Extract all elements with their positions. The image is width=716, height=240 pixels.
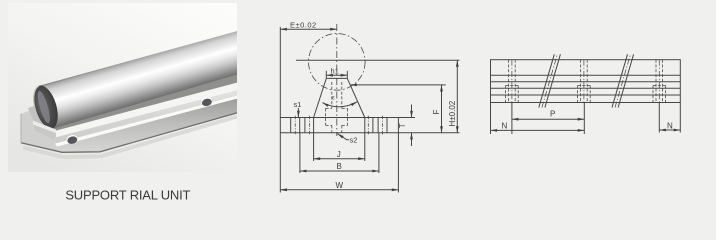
P arrows <box>512 118 519 121</box>
left edge extension <box>490 103 492 135</box>
F leader line <box>351 84 446 86</box>
H arrows <box>456 60 459 67</box>
svg-text:W: W <box>336 181 344 190</box>
saddle bright sliver <box>33 121 56 134</box>
svg-text:B: B <box>337 162 342 171</box>
photo background <box>8 3 237 172</box>
svg-text:F: F <box>432 110 441 115</box>
saddle lip highlight band <box>56 83 237 139</box>
svg-text:h1: h1 <box>331 67 339 76</box>
left extension line <box>279 27 281 193</box>
rail inner line 3 <box>491 87 681 89</box>
angle arc <box>322 102 357 107</box>
h1 extension lines <box>325 71 327 79</box>
T dimension arrow stems <box>411 105 413 118</box>
rail inner line 2 <box>491 81 681 83</box>
arrowheads right view <box>491 118 681 132</box>
s2 leader <box>337 134 349 140</box>
pedestal right slant <box>347 78 365 117</box>
N left arrows <box>491 129 498 132</box>
J right extension <box>364 118 366 162</box>
flange top band <box>54 90 237 143</box>
s2 arrow <box>337 132 344 138</box>
svg-text:s1: s1 <box>294 100 302 109</box>
svg-text:E±0.02: E±0.02 <box>290 21 317 30</box>
h1 dimension line <box>326 74 347 76</box>
B extension lines <box>299 133 301 173</box>
T arrows <box>410 111 413 118</box>
N dimension line right <box>659 129 680 131</box>
svg-text:N: N <box>667 121 673 130</box>
hole3 center extension <box>658 103 660 133</box>
hole group 2 <box>578 60 591 103</box>
spine left end face <box>28 100 58 126</box>
neck top line <box>326 77 347 79</box>
clamp slit dashed <box>326 82 348 133</box>
base drop shadow <box>23 117 237 158</box>
right flange hole walls <box>372 118 374 133</box>
base bottom edge <box>21 113 237 152</box>
base spine shadow under shaft <box>46 74 237 135</box>
svg-text:H±0.02: H±0.02 <box>448 100 457 126</box>
hole center marks <box>295 116 382 135</box>
J left extension <box>313 118 315 162</box>
J dimension line <box>314 158 365 160</box>
W dimension line <box>280 189 398 191</box>
base top line <box>280 117 415 119</box>
h1 arrows <box>326 74 333 77</box>
H dimension line <box>456 60 458 133</box>
shaft group <box>29 28 250 132</box>
s1 arrow <box>297 111 300 118</box>
E dimension line <box>280 28 337 30</box>
base right edge extension <box>397 118 399 193</box>
svg-text:ε: ε <box>332 96 335 102</box>
svg-text:s2: s2 <box>350 136 358 145</box>
pedestal left slant <box>314 78 327 117</box>
rail outline <box>491 60 681 103</box>
F leader arrow <box>350 84 357 87</box>
s1 leader <box>297 108 299 117</box>
shaft circle dashed <box>309 34 366 91</box>
rail inner line 4 <box>491 94 681 96</box>
N right arrows <box>659 129 666 132</box>
angle arc arrows <box>322 101 329 107</box>
right view labels <box>502 109 674 130</box>
break group 1 <box>539 54 555 107</box>
J arrows <box>314 157 321 160</box>
W arrows <box>280 188 287 191</box>
base bottom line <box>280 132 459 134</box>
N dimension line left <box>491 129 585 131</box>
rail inner line 1 <box>491 74 681 76</box>
B arrows <box>300 170 307 173</box>
left flange hole walls <box>290 118 292 133</box>
svg-text:T: T <box>398 123 407 128</box>
flange front highlight band <box>55 96 237 147</box>
middle view labels <box>290 21 457 190</box>
hole group 1 <box>506 60 519 103</box>
E arrows <box>280 28 287 31</box>
break group 2 <box>612 54 628 107</box>
svg-text:SUPPORT RIAL UNIT: SUPPORT RIAL UNIT <box>65 188 190 203</box>
screw hole right <box>200 96 213 107</box>
P dimension line <box>512 118 584 120</box>
hole group 3 <box>653 60 666 103</box>
B dimension line <box>300 170 379 172</box>
arrowheads middle view <box>280 28 458 191</box>
H reference line horizontal <box>296 59 460 61</box>
hole1 center extension <box>511 103 513 135</box>
base left end face <box>21 108 62 152</box>
base left edge line <box>20 114 22 143</box>
svg-text:P: P <box>550 109 555 118</box>
svg-text:N: N <box>502 122 508 131</box>
screw hole left <box>66 134 79 145</box>
saddle cover under shaft end <box>33 122 56 141</box>
right edge extension <box>679 103 681 133</box>
F arrows <box>440 85 443 92</box>
counterbore dashed outline <box>326 107 332 109</box>
F dimension line <box>441 85 443 133</box>
shaft center line vertical <box>336 24 338 136</box>
hole2 center extension <box>583 103 585 135</box>
svg-text:J: J <box>337 150 341 159</box>
base front face <box>57 99 237 153</box>
